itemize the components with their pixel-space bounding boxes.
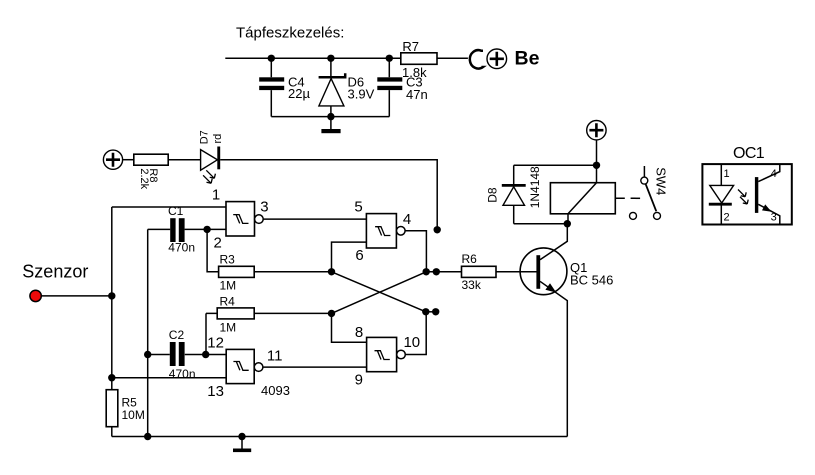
supply symbol plus circle relay <box>587 121 606 140</box>
relay coil K1 <box>550 183 615 224</box>
node junction C1/R3 <box>203 226 210 233</box>
node junction row1 right <box>433 268 440 275</box>
wire gate2 pin6 to node A <box>332 242 367 272</box>
node junction sensor bus <box>108 292 115 299</box>
svg-text:6: 6 <box>355 247 363 264</box>
svg-text:D7: D7 <box>198 130 210 144</box>
svg-text:3.9V: 3.9V <box>348 86 375 101</box>
node A junction <box>328 268 335 275</box>
wire R3 to node A <box>254 271 331 273</box>
wire C1 branch vertical <box>147 229 149 436</box>
wire node B to gate4 pin8 <box>332 313 367 342</box>
svg-text:9: 9 <box>355 372 363 389</box>
svg-text:1M: 1M <box>220 321 237 335</box>
svg-text:10M: 10M <box>122 408 145 422</box>
capacitor C4 <box>259 58 284 116</box>
capacitor C3 <box>377 58 402 116</box>
svg-text:R3: R3 <box>220 252 236 266</box>
node B junction <box>328 310 335 317</box>
node junction D6 on rail <box>327 55 334 62</box>
wire bottom of supply filter <box>271 116 389 118</box>
svg-text:11: 11 <box>267 348 283 365</box>
wire bottom ground rail <box>112 436 568 438</box>
wire Szenzor vertical bus <box>111 207 113 390</box>
wire R6 to Q1 base <box>496 271 537 273</box>
wire R7 to input connector <box>437 57 468 59</box>
svg-text:Szenzor: Szenzor <box>22 261 88 281</box>
supply symbol plus circle Be <box>487 49 507 69</box>
supply symbol plus circle R8 <box>103 150 122 169</box>
LED D7 <box>201 147 221 184</box>
svg-text:470n: 470n <box>168 241 195 255</box>
svg-text:1N4148: 1N4148 <box>528 166 542 208</box>
wire cross coupling B to row1 <box>332 272 427 314</box>
wire R4 to node B <box>254 312 331 314</box>
node stub end dot <box>434 226 441 233</box>
capacitor C1 <box>170 218 184 242</box>
svg-text:1M: 1M <box>220 279 237 293</box>
nand gate U1B <box>366 214 405 248</box>
svg-text:R6: R6 <box>462 252 478 266</box>
svg-text:470n: 470n <box>169 367 196 381</box>
wire to C1 left plate <box>148 228 171 230</box>
node junction row2 left <box>422 308 429 315</box>
node junction pin13 bus <box>108 374 115 381</box>
svg-text:3: 3 <box>260 199 268 216</box>
wire plus to relay <box>596 140 598 183</box>
wire R5 to ground rail <box>111 427 113 437</box>
resistor R3 <box>219 266 255 277</box>
transistor Q1 <box>520 224 567 437</box>
sensor terminal red dot <box>30 290 41 301</box>
svg-text:rd: rd <box>212 134 224 144</box>
node junction C3 on rail <box>386 55 393 62</box>
svg-text:2.2k: 2.2k <box>138 168 150 189</box>
resistor R4 <box>217 308 254 319</box>
svg-text:4: 4 <box>771 168 777 180</box>
node junction relay bottom collector <box>564 220 571 227</box>
wire latch row1 to R6 <box>426 271 461 273</box>
wire to gate pin 1 <box>112 206 226 208</box>
nand gate U1A <box>226 202 263 236</box>
wire R8 to D7 <box>168 159 200 161</box>
node junction C2 left <box>144 351 151 358</box>
svg-text:R4: R4 <box>220 295 236 309</box>
svg-text:8: 8 <box>355 324 363 341</box>
svg-text:1: 1 <box>212 186 220 203</box>
svg-text:BC 546: BC 546 <box>570 273 613 288</box>
nand gate U1D <box>226 349 263 383</box>
wire R3 from C1 node <box>207 229 219 271</box>
svg-text:22µ: 22µ <box>288 86 310 101</box>
wire latch row2 <box>426 311 436 313</box>
wire gate3 out to gate4 pin9 <box>263 366 367 368</box>
wire D7 to right column <box>220 160 437 230</box>
svg-text:SW4: SW4 <box>654 167 669 195</box>
wire R4 from C2 node <box>206 313 217 354</box>
wire cross coupling A to row2 <box>332 272 426 312</box>
svg-text:3: 3 <box>771 212 777 224</box>
svg-text:Tápfeszkezelés:: Tápfeszkezelés: <box>236 25 344 42</box>
svg-text:D8: D8 <box>486 187 500 203</box>
svg-text:2: 2 <box>214 234 222 251</box>
wire dashed relay to SW4 <box>615 197 641 199</box>
svg-text:1: 1 <box>724 168 730 180</box>
svg-text:1.8k: 1.8k <box>402 65 427 80</box>
svg-text:C1: C1 <box>168 204 184 218</box>
wire top supply rail <box>225 57 400 59</box>
wire gate2 output down to latch row <box>405 231 426 272</box>
node junction row2 right <box>432 308 439 315</box>
wire plus to R8 <box>123 159 134 161</box>
node junction row1 left <box>423 268 430 275</box>
svg-text:Be: Be <box>515 47 540 69</box>
svg-text:10: 10 <box>403 334 420 351</box>
resistor R5 <box>106 390 118 427</box>
resistor R8 <box>134 154 168 165</box>
svg-text:4093: 4093 <box>261 383 290 398</box>
svg-text:R7: R7 <box>402 39 419 54</box>
svg-text:C2: C2 <box>169 328 185 342</box>
ground bottom <box>233 437 251 453</box>
svg-text:5: 5 <box>354 199 362 216</box>
svg-text:47n: 47n <box>406 87 428 102</box>
ground top <box>321 117 340 134</box>
svg-text:OC1: OC1 <box>733 145 765 162</box>
node junction C4 on rail <box>268 55 275 62</box>
node junction C2 right <box>202 351 209 358</box>
svg-text:12: 12 <box>207 335 224 352</box>
zener diode D6 <box>319 58 346 116</box>
node junction relay top <box>593 162 600 169</box>
resistor R7 <box>401 53 437 65</box>
svg-text:13: 13 <box>207 383 224 400</box>
wire C1 to gate pin 2 <box>185 228 226 230</box>
node junction C branch bottom <box>144 433 151 440</box>
wire pin13 row <box>112 377 226 379</box>
wire gate4 output up to row2 <box>405 312 426 355</box>
wire gate1 out to gate2 pin5 <box>263 218 366 220</box>
resistor R6 <box>462 266 497 277</box>
svg-text:4: 4 <box>403 211 411 228</box>
svg-text:2: 2 <box>724 212 730 224</box>
node junction ground tap <box>327 113 334 120</box>
nand gate U1C lower <box>367 337 406 371</box>
wire sensor to bus <box>41 295 112 297</box>
diode D8 <box>502 165 597 223</box>
capacitor C2 <box>148 342 227 366</box>
connector arc Be <box>470 50 483 68</box>
node junction ground bottom <box>238 433 245 440</box>
optocoupler OC1 <box>702 164 791 224</box>
switch SW4 <box>630 166 661 219</box>
svg-text:33k: 33k <box>462 278 482 292</box>
